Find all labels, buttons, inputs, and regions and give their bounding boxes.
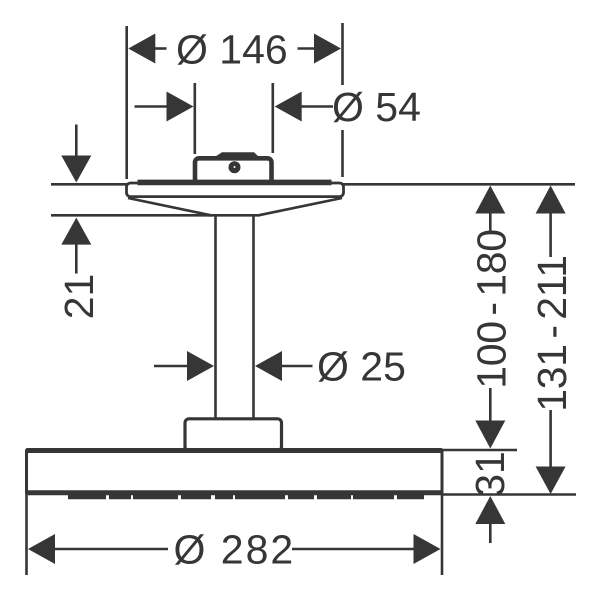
- svg-text:100 - 180: 100 - 180: [469, 229, 515, 389]
- box top lip: [216, 152, 259, 156]
- dim Ø146 ext line left: [125, 26, 128, 179]
- dim 100-180 bottom arrow: [489, 388, 492, 421]
- nozzle band: [68, 495, 424, 500]
- pipe right edge: [252, 215, 255, 419]
- dim 131-211 bottom arrow: [549, 410, 552, 467]
- dim Ø25 line + arrows: [154, 365, 188, 368]
- dim 21 bottom ext line: [51, 214, 212, 217]
- svg-text:Ø 282: Ø 282: [174, 527, 296, 573]
- disc bottom thick edge: [28, 490, 441, 495]
- svg-text:21: 21: [56, 274, 102, 320]
- dim 31 top ext line: [443, 449, 517, 452]
- ceiling reference line: [51, 183, 575, 186]
- dim Ø282 line + arrows: [54, 548, 168, 551]
- disc top thick edge: [28, 448, 441, 453]
- dim 21 down arrow: [75, 125, 78, 157]
- connector box on top of flange: [195, 158, 272, 184]
- svg-text:Ø 54: Ø 54: [332, 84, 421, 130]
- dim 131-211 top arrow: [536, 186, 566, 214]
- flange skirt right slant: [259, 198, 343, 215]
- dim Ø282 ext line right: [441, 452, 444, 575]
- dim 100-180 top arrow: [475, 186, 505, 214]
- dim 21 up arrow: [61, 218, 91, 245]
- svg-text:Ø 25: Ø 25: [317, 344, 406, 390]
- dim Ø282 ext line left: [25, 452, 28, 575]
- dim 31 bottom ext line: [443, 493, 576, 496]
- pipe left edge: [214, 215, 217, 419]
- screw dot: [229, 161, 241, 173]
- flange skirt bottom: [209, 214, 260, 217]
- shower disc: [27, 450, 443, 494]
- dim Ø146 line + arrows: [155, 47, 167, 50]
- base block: [185, 419, 282, 451]
- flange plate: [127, 183, 344, 197]
- flange top raised band: [138, 180, 332, 186]
- dim Ø54 ext line right: [271, 83, 274, 153]
- dim Ø146 ext line right (interrupted by Ø54 text): [341, 23, 344, 85]
- dim Ø54 ext line left: [194, 83, 197, 154]
- svg-text:31: 31: [467, 451, 513, 497]
- svg-text:131 - 211: 131 - 211: [529, 255, 575, 412]
- flange skirt left slant: [128, 198, 211, 215]
- svg-text:Ø 146: Ø 146: [176, 27, 288, 73]
- dim 31 bottom up arrow: [475, 496, 505, 524]
- dim Ø54 line + arrows: [135, 105, 168, 108]
